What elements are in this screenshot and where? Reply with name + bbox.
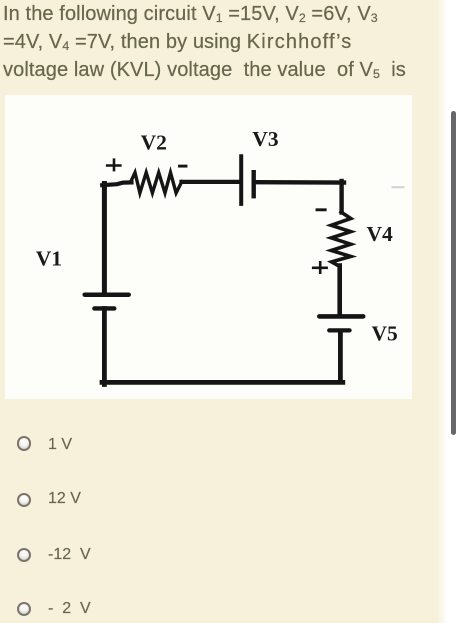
option 1 label [48, 437, 72, 453]
svg-text:V2: V2 [141, 131, 167, 155]
svg-text:V3: V3 [252, 127, 279, 151]
battery V5 top plate [319, 314, 363, 319]
white circuit panel [5, 95, 412, 399]
minus sign V4 [317, 208, 325, 211]
left wire upper [102, 184, 107, 293]
plus sign V2 [107, 160, 120, 170]
battery V3 long plate [239, 156, 243, 204]
option 2 radio [17, 493, 31, 507]
wire V3 to right corner [256, 180, 345, 185]
svg-text:V4: V4 [367, 222, 394, 246]
wire resistor to V3 [182, 180, 240, 184]
option 3 radio [17, 548, 31, 562]
wire V4 to V5 [337, 266, 342, 315]
battery V1 top plate [85, 292, 129, 297]
faint artifact dash right of circuit [393, 186, 404, 188]
option 3 label [48, 547, 91, 563]
svg-text:V5: V5 [372, 321, 398, 345]
svg-text:V1: V1 [36, 246, 62, 270]
option 1 radio [17, 436, 31, 450]
question text [3, 0, 459, 84]
minus sign V2 [180, 165, 187, 168]
resistor V4 [331, 212, 351, 266]
option 4 label [48, 601, 91, 617]
scrollbar [451, 111, 456, 435]
battery V3 short plate [251, 172, 255, 196]
wire top-left corner horizontal [102, 182, 131, 185]
option 2 label [48, 491, 81, 507]
right white strip [437, 0, 460, 623]
wire V5 to bottom [338, 331, 343, 380]
battery V1 bottom plate [94, 306, 114, 310]
bottom wire [102, 380, 343, 385]
battery V5 bottom plate [329, 328, 349, 332]
option 4 radio [17, 602, 31, 616]
resistor V2 [131, 173, 182, 194]
wire right vertical upper [339, 181, 343, 213]
plus sign V4 [313, 262, 326, 272]
left wire lower [102, 309, 107, 385]
